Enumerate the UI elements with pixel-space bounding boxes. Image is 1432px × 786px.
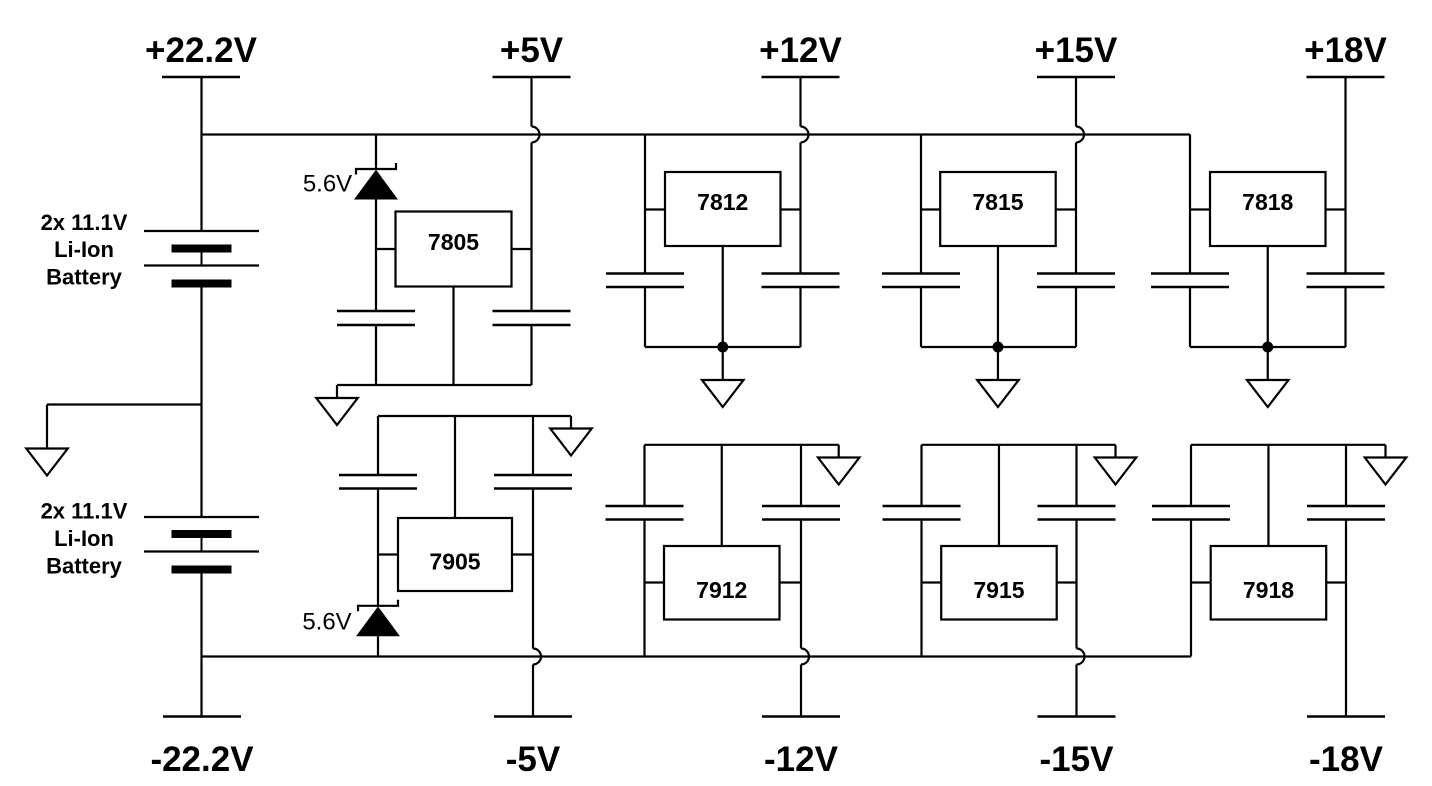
wire output cap to bottom wire <box>799 287 801 347</box>
wire 7815 ground pin <box>997 246 999 347</box>
capacitor (7818 output) <box>1307 274 1385 288</box>
wire ground bus to input cap <box>1190 445 1192 506</box>
wire hop to -5V terminal <box>532 665 534 717</box>
capacitor (7918 output) <box>1307 506 1385 520</box>
wire zener D1 to 7805 input node <box>375 199 377 311</box>
wire 7915 ground pin <box>998 445 1000 546</box>
wire 7905 ground pin <box>454 416 456 518</box>
junction node (7818 ground) <box>1262 342 1273 353</box>
wire 7915 ground bus <box>922 445 1116 458</box>
wire 7815 input pin <box>921 208 940 210</box>
label battery BT1 <box>41 210 128 290</box>
wire junction to ground <box>997 347 999 380</box>
svg-text:+22.2V: +22.2V <box>145 31 258 70</box>
wire 7818 ground pin <box>1267 246 1269 347</box>
ground (7905) <box>550 429 592 456</box>
svg-text:-22.2V: -22.2V <box>150 740 254 779</box>
wire 7818 bottom wire <box>1190 346 1346 348</box>
svg-text:-18V: -18V <box>1309 740 1384 779</box>
wire rail to 7815 input <box>920 135 922 274</box>
svg-text:Battery: Battery <box>46 265 123 290</box>
svg-text:7918: 7918 <box>1243 577 1294 603</box>
svg-text:Li-Ion: Li-Ion <box>54 237 114 262</box>
regulator U6 7912 <box>664 546 780 620</box>
regulator U8 7918 <box>1211 546 1327 620</box>
svg-text:2x 11.1V: 2x 11.1V <box>41 210 128 235</box>
svg-text:7912: 7912 <box>696 577 747 603</box>
capacitor (7812 input) <box>606 274 684 288</box>
capacitor (7912 output) <box>762 506 840 520</box>
wire 7915 output pin <box>1057 581 1077 583</box>
wire +5V output column <box>530 143 532 312</box>
svg-text:Li-Ion: Li-Ion <box>54 526 114 551</box>
capacitor (7818 input) <box>1151 274 1229 288</box>
wire terminal to hop <box>1075 77 1077 127</box>
svg-text:-15V: -15V <box>1040 740 1115 779</box>
power terminal +18V <box>1304 31 1387 77</box>
wire junction to ground <box>1267 347 1269 380</box>
wire output column to terminal <box>1345 520 1347 717</box>
junction node (7812 ground) <box>717 342 728 353</box>
wire output column <box>1075 143 1077 274</box>
wire hop over rail <box>801 127 809 143</box>
wire 7918 ground bus <box>1191 445 1386 458</box>
svg-text:+12V: +12V <box>759 31 842 70</box>
wire battery midpoint to ground <box>47 405 202 449</box>
wire ground bus to input cap <box>920 445 922 506</box>
wire 7912 output pin <box>780 581 802 583</box>
wire 7905 input pin <box>378 553 398 555</box>
svg-text:7915: 7915 <box>973 577 1024 603</box>
wire hop over rail <box>1076 127 1084 143</box>
wire hop +5V over rail <box>532 127 540 143</box>
wire output column to hop <box>800 520 802 649</box>
power terminal +12V <box>759 31 842 77</box>
wire zener D2 to bottom rail <box>377 636 379 656</box>
wire +22.2V top rail <box>202 133 1191 135</box>
wire rail to 7812 input <box>644 135 646 274</box>
ground (7818) <box>1247 380 1289 407</box>
capacitor C3 (7905 input) <box>339 475 417 489</box>
wire 7812 ground pin <box>722 246 724 347</box>
wire 7812 output pin <box>781 208 801 210</box>
regulator U2 7812 <box>665 172 781 246</box>
wire 7918 ground pin <box>1267 445 1269 546</box>
power terminal +5V <box>493 31 571 77</box>
capacitor C4 (7905 output) <box>494 475 572 489</box>
ground (7812) <box>702 380 744 407</box>
wire terminal to output column <box>1344 77 1346 274</box>
wire hop over bottom rail <box>1077 649 1085 665</box>
svg-text:-12V: -12V <box>764 740 839 779</box>
power terminal +15V <box>1035 31 1118 77</box>
wire input cap to bottom rail <box>1190 520 1192 657</box>
wire output column to hop <box>1075 520 1077 649</box>
wire input cap to bottom rail <box>643 520 645 657</box>
wire 7818 output pin <box>1326 208 1346 210</box>
wire 7915 input pin <box>922 581 942 583</box>
battery BT2 (2x 11.1V Li-Ion) <box>144 517 259 574</box>
svg-text:+15V: +15V <box>1035 31 1118 70</box>
wire -5V output column <box>532 489 534 649</box>
label battery BT2 <box>41 499 128 579</box>
capacitor (7918 input) <box>1152 506 1230 520</box>
wire 7905 output pin <box>512 553 533 555</box>
regulator U3 7815 <box>940 172 1055 246</box>
wire 7812 input pin <box>645 208 665 210</box>
svg-text:+5V: +5V <box>500 31 564 70</box>
wire C1 to ground wire <box>375 325 377 385</box>
wire 7912 ground bus <box>645 445 839 458</box>
wire 7812 bottom wire <box>645 346 801 348</box>
wire hop -5V over bottom rail <box>533 649 541 665</box>
capacitor (7915 output) <box>1038 506 1116 520</box>
wire input cap to bottom rail <box>920 520 922 657</box>
wire battery BT1 to battery BT2 <box>200 288 202 518</box>
wire rail to zener D1 <box>375 135 377 170</box>
svg-text:5.6V: 5.6V <box>302 609 351 636</box>
wire terminal to hop <box>799 77 801 127</box>
wire rail corner to 7818 input <box>1189 135 1191 274</box>
battery BT1 (2x 11.1V Li-Ion) <box>144 231 259 288</box>
capacitor (7812 output) <box>762 274 840 288</box>
wire ground bus to C4 <box>532 416 534 475</box>
wire hop over bottom rail <box>801 649 809 665</box>
capacitor (7815 output) <box>1037 274 1115 288</box>
wire junction to ground <box>722 347 724 380</box>
svg-text:7818: 7818 <box>1242 189 1293 215</box>
wire 7805 ground pin <box>452 287 454 386</box>
wire 7918 input pin <box>1191 581 1211 583</box>
junction node (7815 ground) <box>992 342 1003 353</box>
wire 7805 output pin <box>512 248 532 250</box>
wire 7818 input pin <box>1190 208 1210 210</box>
svg-text:-5V: -5V <box>506 740 561 779</box>
wire 7805 ground bus <box>337 385 532 398</box>
wire input cap to bottom wire <box>644 287 646 347</box>
wire input cap to bottom wire <box>920 287 922 347</box>
power terminal -15V <box>1038 717 1116 780</box>
capacitor (7815 input) <box>882 274 960 288</box>
wire 7905 ground bus <box>378 416 571 429</box>
wire input cap to bottom wire <box>1189 287 1191 347</box>
svg-text:Battery: Battery <box>46 554 123 579</box>
wire 7815 output pin <box>1056 208 1076 210</box>
wire ground bus to output cap <box>1075 445 1077 506</box>
zener D1 5.6V <box>355 163 397 199</box>
regulator U1 7805 <box>396 212 512 287</box>
wire output cap to bottom wire <box>1075 287 1077 347</box>
wire output cap to bottom wire <box>1344 287 1346 347</box>
power terminal -12V <box>762 717 840 780</box>
wire 7805 input pin <box>376 248 396 250</box>
wire 7912 input pin <box>645 581 665 583</box>
wire C2 to ground wire <box>530 325 532 385</box>
wire ground bus to output cap <box>800 445 802 506</box>
ground (7918) <box>1365 458 1407 485</box>
power terminal -5V <box>494 717 572 780</box>
wire -22.2V bottom rail <box>202 655 1192 657</box>
wire 7912 ground pin <box>721 445 723 546</box>
capacitor (7915 input) <box>883 506 961 520</box>
wire battery BT2 to -22.2V terminal <box>200 574 202 717</box>
power terminal -22.2V <box>150 717 254 780</box>
power terminal -18V <box>1307 717 1385 780</box>
wire +5V terminal to hop <box>530 77 532 127</box>
wire hop to terminal <box>800 665 802 717</box>
svg-text:7812: 7812 <box>697 189 748 215</box>
regulator U5 7905 <box>398 518 512 591</box>
wire 7815 bottom wire <box>921 346 1076 348</box>
wire ground bus to output cap <box>1345 445 1347 506</box>
capacitor C2 (7805 output) <box>493 311 571 325</box>
zener D2 5.6V <box>357 600 399 636</box>
capacitor C1 (7805 input) <box>337 311 415 325</box>
ground (battery midpoint) <box>26 449 68 476</box>
wire output column <box>799 143 801 274</box>
ground (7915) <box>1095 458 1137 485</box>
wire ground bus to C3 <box>377 416 379 475</box>
power terminal +22.2V <box>145 31 258 77</box>
svg-text:+18V: +18V <box>1304 31 1387 70</box>
svg-text:2x 11.1V: 2x 11.1V <box>41 499 128 524</box>
svg-text:5.6V: 5.6V <box>303 171 352 198</box>
wire ground bus to input cap <box>643 445 645 506</box>
wire +22.2V terminal to battery BT1 <box>200 77 202 231</box>
ground (7912) <box>818 458 860 485</box>
regulator U4 7818 <box>1210 172 1326 246</box>
svg-text:7815: 7815 <box>972 189 1023 215</box>
wire C3 to zener D2 <box>377 489 379 606</box>
regulator U7 7915 <box>941 546 1056 620</box>
svg-text:7805: 7805 <box>428 229 479 255</box>
ground (7805) <box>316 398 358 425</box>
svg-text:7905: 7905 <box>429 549 480 575</box>
ground (7815) <box>977 380 1019 407</box>
capacitor (7912 input) <box>606 506 684 520</box>
wire 7918 output pin <box>1326 581 1346 583</box>
wire hop to terminal <box>1075 665 1077 717</box>
